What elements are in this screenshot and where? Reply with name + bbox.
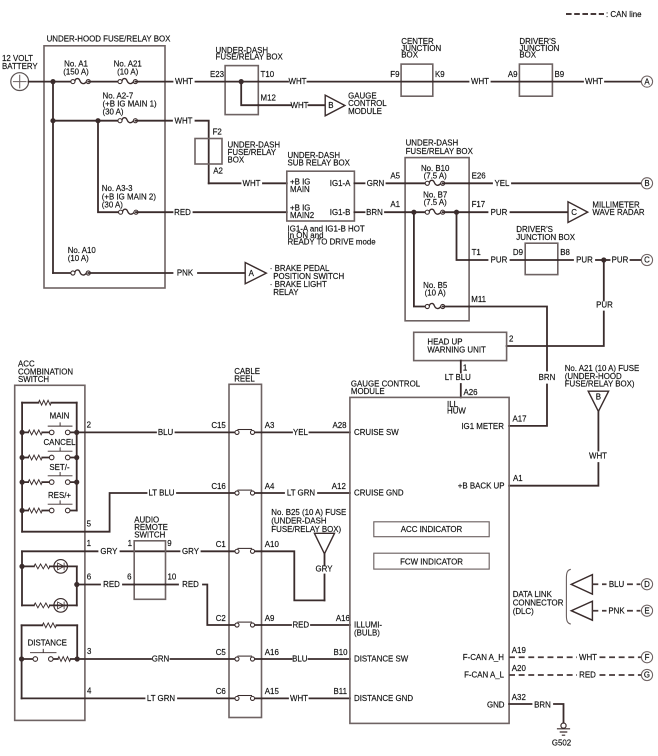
lamp2 bulb xyxy=(54,599,68,613)
wire A15 to WHT xyxy=(262,697,289,699)
distance top resistor xyxy=(42,623,56,628)
svg-text:(10 A): (10 A) xyxy=(68,254,89,263)
svg-text:B: B xyxy=(596,393,601,402)
wire LT GRN to A12 xyxy=(318,492,350,494)
lamp1 bulb xyxy=(54,560,68,574)
svg-text:PUR: PUR xyxy=(491,256,508,265)
svg-text:A26: A26 xyxy=(464,388,479,397)
svg-text:WHT: WHT xyxy=(175,77,193,86)
svg-text:BOX: BOX xyxy=(228,156,245,165)
svg-text:IG1-B: IG1-B xyxy=(330,208,351,217)
svg-text:(BULB): (BULB) xyxy=(354,628,380,637)
svg-text:GND: GND xyxy=(487,701,505,710)
svg-text:F2: F2 xyxy=(213,128,222,137)
wire dashed RED to node G xyxy=(600,674,642,676)
distance right bus xyxy=(76,625,78,659)
cable reel box xyxy=(229,384,262,717)
wire pin1 down xyxy=(460,361,462,373)
wire node C down PUR xyxy=(603,260,605,301)
wire B9 to WHT xyxy=(552,81,583,83)
svg-text:BLU: BLU xyxy=(609,580,625,589)
wire LT BLU to cable reel C16 xyxy=(177,492,229,494)
svg-text:HUW: HUW xyxy=(447,407,466,416)
node RES left xyxy=(20,508,25,513)
wire B7 junction to T1 xyxy=(457,212,470,260)
bus under-hood left xyxy=(52,82,54,273)
wire dashed PNK to E xyxy=(592,610,606,612)
svg-text:RED: RED xyxy=(579,671,596,680)
svg-text:F9: F9 xyxy=(390,70,400,79)
wire WHT to A1 backup xyxy=(509,463,598,486)
svg-text:: CAN line: : CAN line xyxy=(606,10,642,19)
wire IG1-A to GRN xyxy=(354,182,364,184)
svg-text:BLU: BLU xyxy=(292,655,308,664)
wire IG1-B to BRN xyxy=(354,211,364,213)
svg-text:5: 5 xyxy=(87,520,92,529)
wire pin3 GRN row xyxy=(77,658,151,660)
svg-text:MODULE: MODULE xyxy=(348,107,382,116)
wire through audio switch RED xyxy=(134,584,165,586)
svg-text:F-CAN A_L: F-CAN A_L xyxy=(464,671,505,680)
switch MAIN wire xyxy=(22,431,77,433)
wire WHT to drivers junction box xyxy=(492,81,520,83)
svg-text:READY TO DRIVE mode: READY TO DRIVE mode xyxy=(288,238,377,247)
wire WHT to F2 corner xyxy=(196,121,209,184)
svg-text:GRN: GRN xyxy=(152,655,170,664)
node distance left xyxy=(19,656,24,661)
svg-text:A3: A3 xyxy=(265,421,275,430)
wire WHT to sub relay box xyxy=(263,182,287,184)
lamp2 wire xyxy=(22,604,77,606)
lamp1 resistor xyxy=(34,564,50,569)
svg-text:WHT: WHT xyxy=(291,101,309,110)
node CANCEL right xyxy=(74,455,79,460)
wire acc GRY row xyxy=(22,550,98,552)
svg-text:6: 6 xyxy=(127,573,132,582)
svg-text:RED: RED xyxy=(103,580,120,589)
wire YEL to node B xyxy=(512,182,640,184)
svg-text:DISTANCE SW: DISTANCE SW xyxy=(354,655,409,664)
node bus row2 xyxy=(50,118,55,123)
node F xyxy=(641,652,652,663)
wire WHT to E23 xyxy=(196,81,226,83)
svg-text:A16: A16 xyxy=(265,648,280,657)
fuse No.B7 7.5A xyxy=(425,209,445,214)
wire PUR to node C junction xyxy=(596,259,610,261)
svg-text:D: D xyxy=(644,580,650,589)
svg-text:(7.5 A): (7.5 A) xyxy=(424,171,448,180)
svg-text:(DLC): (DLC) xyxy=(513,607,534,616)
svg-text:A17: A17 xyxy=(513,414,527,423)
svg-text:DISTANCE GND: DISTANCE GND xyxy=(354,694,413,703)
switch SET contacts xyxy=(48,473,72,485)
svg-text:PUR: PUR xyxy=(491,208,508,217)
svg-text:A4: A4 xyxy=(265,482,275,491)
distance left bus xyxy=(21,625,23,698)
distance switch contacts xyxy=(31,649,57,661)
svg-text:LT GRN: LT GRN xyxy=(287,489,316,498)
wire WHT to B11 xyxy=(310,697,350,699)
cable reel contacts row1 xyxy=(235,430,255,435)
svg-text:A9: A9 xyxy=(508,70,518,79)
svg-text:A9: A9 xyxy=(265,614,275,623)
svg-text:A19: A19 xyxy=(512,646,527,655)
svg-text:CRUISE SW: CRUISE SW xyxy=(354,428,399,437)
node lamp RED junction xyxy=(74,582,79,587)
svg-text:ACC INDICATOR: ACC INDICATOR xyxy=(401,525,463,534)
wire A9 to RED xyxy=(262,624,292,626)
svg-text:MAIN2: MAIN2 xyxy=(290,211,314,220)
node lamp1 left xyxy=(19,564,24,569)
svg-text:REEL: REEL xyxy=(234,375,255,384)
svg-text:A1: A1 xyxy=(513,474,523,483)
wire YEL to A28 xyxy=(310,431,350,433)
node battery bus junction xyxy=(50,79,55,84)
wire A1 to fuse B7 xyxy=(405,211,427,213)
wire PUR to node C xyxy=(631,259,641,261)
svg-text:1: 1 xyxy=(87,539,91,548)
node B7 left junction xyxy=(411,210,416,215)
lamp bus right xyxy=(76,566,78,605)
wire WHT to node A xyxy=(605,81,640,83)
wire PUR to drivers junction box 2 xyxy=(511,259,526,261)
cable reel contacts row3 xyxy=(235,548,255,553)
svg-text:D9: D9 xyxy=(513,248,524,257)
under-dash sub relay box xyxy=(287,171,355,221)
svg-text:RES/+: RES/+ xyxy=(48,491,71,500)
svg-text:G: G xyxy=(644,671,650,680)
svg-text:FUSE/RELAY BOX): FUSE/RELAY BOX) xyxy=(565,380,635,389)
wire PUR to connector C radar xyxy=(511,211,569,213)
wire PNK to connector A xyxy=(198,272,245,274)
svg-text:BOX: BOX xyxy=(519,51,536,60)
wire fuse B down xyxy=(597,412,599,451)
svg-text:LT BLU: LT BLU xyxy=(445,373,471,382)
distance switch wire xyxy=(22,658,78,660)
svg-text:1: 1 xyxy=(463,364,467,373)
dlc connector E triangle xyxy=(571,601,592,620)
connector A to brake switch xyxy=(245,263,266,284)
svg-text:YEL: YEL xyxy=(495,179,511,188)
svg-text:E: E xyxy=(644,606,649,615)
svg-text:JUNCTION BOX: JUNCTION BOX xyxy=(516,233,575,242)
wire A3-3 to RED xyxy=(136,211,173,213)
svg-text:WARNING UNIT: WARNING UNIT xyxy=(427,346,486,355)
svg-text:LT GRN: LT GRN xyxy=(147,694,176,703)
cable reel wires xyxy=(229,432,262,698)
switch CANCEL contacts xyxy=(48,448,72,460)
svg-text:M11: M11 xyxy=(471,295,486,304)
svg-text:WHT: WHT xyxy=(289,77,307,86)
svg-text:M12: M12 xyxy=(261,94,276,103)
connector B fuse A21 xyxy=(588,391,608,411)
svg-text:MAIN: MAIN xyxy=(290,185,310,194)
wire B7 to F17 xyxy=(443,211,469,213)
svg-text:B: B xyxy=(328,101,333,110)
svg-text:A: A xyxy=(249,269,255,278)
wire BLU to cable reel C15 xyxy=(176,431,230,433)
cable reel contacts row6 xyxy=(235,696,255,701)
svg-text:B11: B11 xyxy=(334,687,347,696)
node E23 junction xyxy=(239,79,244,84)
svg-text:(7.5 A): (7.5 A) xyxy=(424,198,448,207)
drivers junction box xyxy=(519,64,552,96)
fuse No.A10 10A xyxy=(71,270,91,275)
switch CANCEL wire xyxy=(22,457,77,459)
wire acc RED row xyxy=(77,584,100,586)
wire BRN to A17 xyxy=(509,385,547,426)
svg-text:BRN: BRN xyxy=(366,208,383,217)
svg-text:C5: C5 xyxy=(216,648,227,657)
wire F17 to PUR xyxy=(469,211,487,213)
node D xyxy=(641,579,652,590)
connector B to gauge control module xyxy=(325,95,345,116)
switch CANCEL resistor xyxy=(28,455,42,460)
svg-text:4: 4 xyxy=(87,686,92,695)
svg-text:E26: E26 xyxy=(472,171,487,180)
svg-text:B9: B9 xyxy=(555,70,565,79)
node B xyxy=(641,178,652,189)
wire M12 branch xyxy=(241,82,258,106)
gauge control module box xyxy=(350,397,509,723)
svg-text:WHT: WHT xyxy=(243,179,261,188)
wire through E23 box xyxy=(225,81,258,83)
wire dashed F-CAN A_H xyxy=(509,656,577,658)
wire T10 to WHT xyxy=(258,81,288,83)
node distance right xyxy=(75,656,80,661)
wire GRN to cable reel C5 xyxy=(171,658,230,660)
node A xyxy=(641,76,652,87)
svg-text:LT BLU: LT BLU xyxy=(148,489,174,498)
svg-text:A32: A32 xyxy=(512,693,526,702)
wire A1 to A21 xyxy=(88,81,120,83)
wire GRY to corner xyxy=(324,575,326,601)
svg-text:2: 2 xyxy=(87,420,91,429)
wire LT BLU to A26 xyxy=(460,384,462,397)
svg-text:E23: E23 xyxy=(210,70,225,79)
wire A2 to WHT xyxy=(209,182,241,184)
wire dashed F-CAN A_L xyxy=(509,674,577,676)
fuse No.A2-7 30A xyxy=(118,118,138,123)
svg-text:C1: C1 xyxy=(216,540,226,549)
fuse No.B10 7.5A xyxy=(425,180,445,185)
svg-text:CRUISE GND: CRUISE GND xyxy=(354,489,404,498)
svg-text:B10: B10 xyxy=(334,648,349,657)
wire through drivers junction box xyxy=(519,81,552,83)
under-dash fuse/relay box E23 xyxy=(225,66,258,115)
CAN line legend xyxy=(566,13,604,15)
svg-text:MODULE: MODULE xyxy=(351,387,385,396)
wire A16 to BLU xyxy=(262,658,292,660)
svg-text:C: C xyxy=(571,208,577,217)
under-dash fuse/relay box F2 xyxy=(195,139,222,165)
wire pin2 to BLU xyxy=(77,431,156,433)
svg-text:PUR: PUR xyxy=(612,256,629,265)
wire PUR to head up warning unit pin2 xyxy=(507,312,604,347)
wire BRN to ground xyxy=(554,704,564,723)
svg-text:BLU: BLU xyxy=(158,428,174,437)
svg-text:A28: A28 xyxy=(333,421,348,430)
svg-text:PUR: PUR xyxy=(596,301,613,310)
switch SET resistor xyxy=(28,480,42,485)
wire GRN to A5 xyxy=(387,182,406,184)
wire LT GRN to cable reel C6 xyxy=(178,697,229,699)
lamp2 resistor xyxy=(34,603,50,608)
wire GRY to cable reel C1 xyxy=(202,550,230,552)
wire pin9 to GRY xyxy=(166,550,180,552)
svg-text:GRY: GRY xyxy=(316,565,334,574)
dlc connector D triangle xyxy=(571,575,592,595)
svg-text:WAVE RADAR: WAVE RADAR xyxy=(592,208,644,217)
wire K9 to WHT xyxy=(433,81,469,83)
svg-text:SUB RELAY BOX: SUB RELAY BOX xyxy=(288,159,351,168)
svg-text:C6: C6 xyxy=(216,687,227,696)
switch SET wire xyxy=(22,481,77,483)
svg-text:RED: RED xyxy=(174,208,191,217)
wire BRN to A1 xyxy=(385,211,405,213)
node CANCEL left xyxy=(20,455,25,460)
wire A10 to fuse B25 xyxy=(262,551,325,600)
wire dashed PNK to node E xyxy=(627,610,640,612)
svg-text:PNK: PNK xyxy=(608,606,625,615)
svg-text:WHT: WHT xyxy=(579,653,597,662)
svg-text:CANCEL: CANCEL xyxy=(43,438,76,447)
wire B10 to E26 xyxy=(443,182,469,184)
svg-text:GRY: GRY xyxy=(182,547,200,556)
switch bank left bus xyxy=(21,403,23,532)
svg-text:WHT: WHT xyxy=(290,694,308,703)
under-hood fuse/relay box xyxy=(44,46,165,288)
svg-text:F17: F17 xyxy=(472,200,486,209)
fuse No.B5 10A xyxy=(425,303,445,308)
wire BLU to B10 xyxy=(309,658,350,660)
wire dashed WHT to node F xyxy=(600,656,642,658)
svg-text:WHT: WHT xyxy=(175,116,193,125)
node C xyxy=(641,254,652,265)
svg-text:GRY: GRY xyxy=(100,547,118,556)
wire RED to cable reel C2 xyxy=(203,585,229,626)
wire battery to fuse A1 xyxy=(29,81,73,83)
svg-text:BATTERY: BATTERY xyxy=(2,62,38,71)
dlc bracket xyxy=(566,569,570,624)
lamp bus left xyxy=(21,551,23,605)
svg-text:SWITCH: SWITCH xyxy=(18,375,49,384)
svg-text:K9: K9 xyxy=(435,70,445,79)
cable reel contacts row2 xyxy=(235,490,255,495)
wire A4 to LT GRN xyxy=(262,492,285,494)
switch bank top resistor xyxy=(38,400,51,405)
svg-text:10: 10 xyxy=(168,573,177,582)
switch RES wire xyxy=(22,510,77,512)
wire through center junction box xyxy=(401,81,433,83)
svg-text:C2: C2 xyxy=(216,614,226,623)
wire GRY to audio switch pin1 xyxy=(121,550,135,552)
wire M12 to WHT xyxy=(258,104,290,106)
svg-text:F-CAN A_H: F-CAN A_H xyxy=(463,653,505,662)
cable reel contacts row5 xyxy=(235,656,255,661)
svg-text:A1: A1 xyxy=(390,200,400,209)
svg-text:BOX: BOX xyxy=(401,51,418,60)
svg-text:1: 1 xyxy=(128,539,132,548)
svg-text:B: B xyxy=(644,179,649,188)
wire M11 to BRN corner xyxy=(469,307,547,371)
head up warning unit box xyxy=(414,332,507,360)
connector fuse B25 triangle xyxy=(314,533,334,554)
wire fuse B25 down xyxy=(324,554,326,565)
svg-text:A12: A12 xyxy=(332,482,346,491)
wire A10 to PNK xyxy=(88,272,172,274)
wire GND to BRN xyxy=(509,703,531,705)
switch bank right bus xyxy=(76,403,78,511)
distance switch resistor xyxy=(58,657,71,662)
svg-text:RED: RED xyxy=(292,621,309,630)
wire row2 to fuse A2-7 xyxy=(53,120,120,122)
svg-text:A10: A10 xyxy=(265,540,280,549)
node E xyxy=(641,605,652,616)
wire B7 left junction to fuse B5 xyxy=(414,212,427,306)
node G xyxy=(641,669,652,680)
svg-text:WHT: WHT xyxy=(471,77,489,86)
node SET right xyxy=(74,480,79,485)
svg-text:C15: C15 xyxy=(211,421,226,430)
acc combination switch box xyxy=(15,385,85,720)
wire A2-7 to WHT xyxy=(135,120,172,122)
svg-text:PUR: PUR xyxy=(576,256,593,265)
wire RED to sub relay box xyxy=(194,211,287,213)
svg-text:GRN: GRN xyxy=(367,179,385,188)
svg-text:A5: A5 xyxy=(390,171,400,180)
wire through drivers junction box 2 xyxy=(525,259,558,261)
switch MAIN contacts xyxy=(48,423,72,435)
svg-text:BRN: BRN xyxy=(534,700,551,709)
svg-text:IG1 METER: IG1 METER xyxy=(461,422,504,431)
wire RED to A16 xyxy=(311,624,350,626)
drivers junction box 2 xyxy=(525,243,558,274)
switch MAIN resistor xyxy=(28,430,42,435)
svg-text:2: 2 xyxy=(509,334,513,343)
distance top wire xyxy=(22,624,78,626)
svg-text:PNK: PNK xyxy=(177,269,194,278)
svg-text:T10: T10 xyxy=(261,70,275,79)
node PUR junction xyxy=(601,257,606,262)
ground G502 xyxy=(558,723,570,735)
svg-text:FCW INDICATOR: FCW INDICATOR xyxy=(400,557,463,566)
wire pin5 to LT BLU xyxy=(22,493,146,532)
wire T1 to PUR xyxy=(469,259,487,261)
svg-text:IG1-A: IG1-A xyxy=(330,179,351,188)
node MAIN right xyxy=(74,430,79,435)
switch RES resistor xyxy=(28,508,42,513)
switch bank top wire xyxy=(22,402,77,404)
switch RES contacts xyxy=(48,501,72,513)
fcw indicator box xyxy=(374,553,489,569)
cable reel contacts row4 xyxy=(235,622,255,627)
svg-text:9: 9 xyxy=(167,539,172,548)
svg-text:+B BACK UP: +B BACK UP xyxy=(458,482,505,491)
fuse No.A3-3 30A xyxy=(119,209,139,214)
fuse No.A21 10A xyxy=(118,79,138,84)
lamp1 wire xyxy=(22,565,77,567)
svg-text:3: 3 xyxy=(87,647,92,656)
wire pin4 LT GRN row xyxy=(22,697,145,699)
wire A21 to WHT label xyxy=(135,81,172,83)
acc indicator box xyxy=(374,522,489,537)
wire E26 to YEL xyxy=(469,182,492,184)
wire bus to fuse A10 xyxy=(53,272,73,274)
battery 12V xyxy=(11,73,29,91)
svg-text:A15: A15 xyxy=(265,687,280,696)
wire A3 to YEL xyxy=(262,431,293,433)
